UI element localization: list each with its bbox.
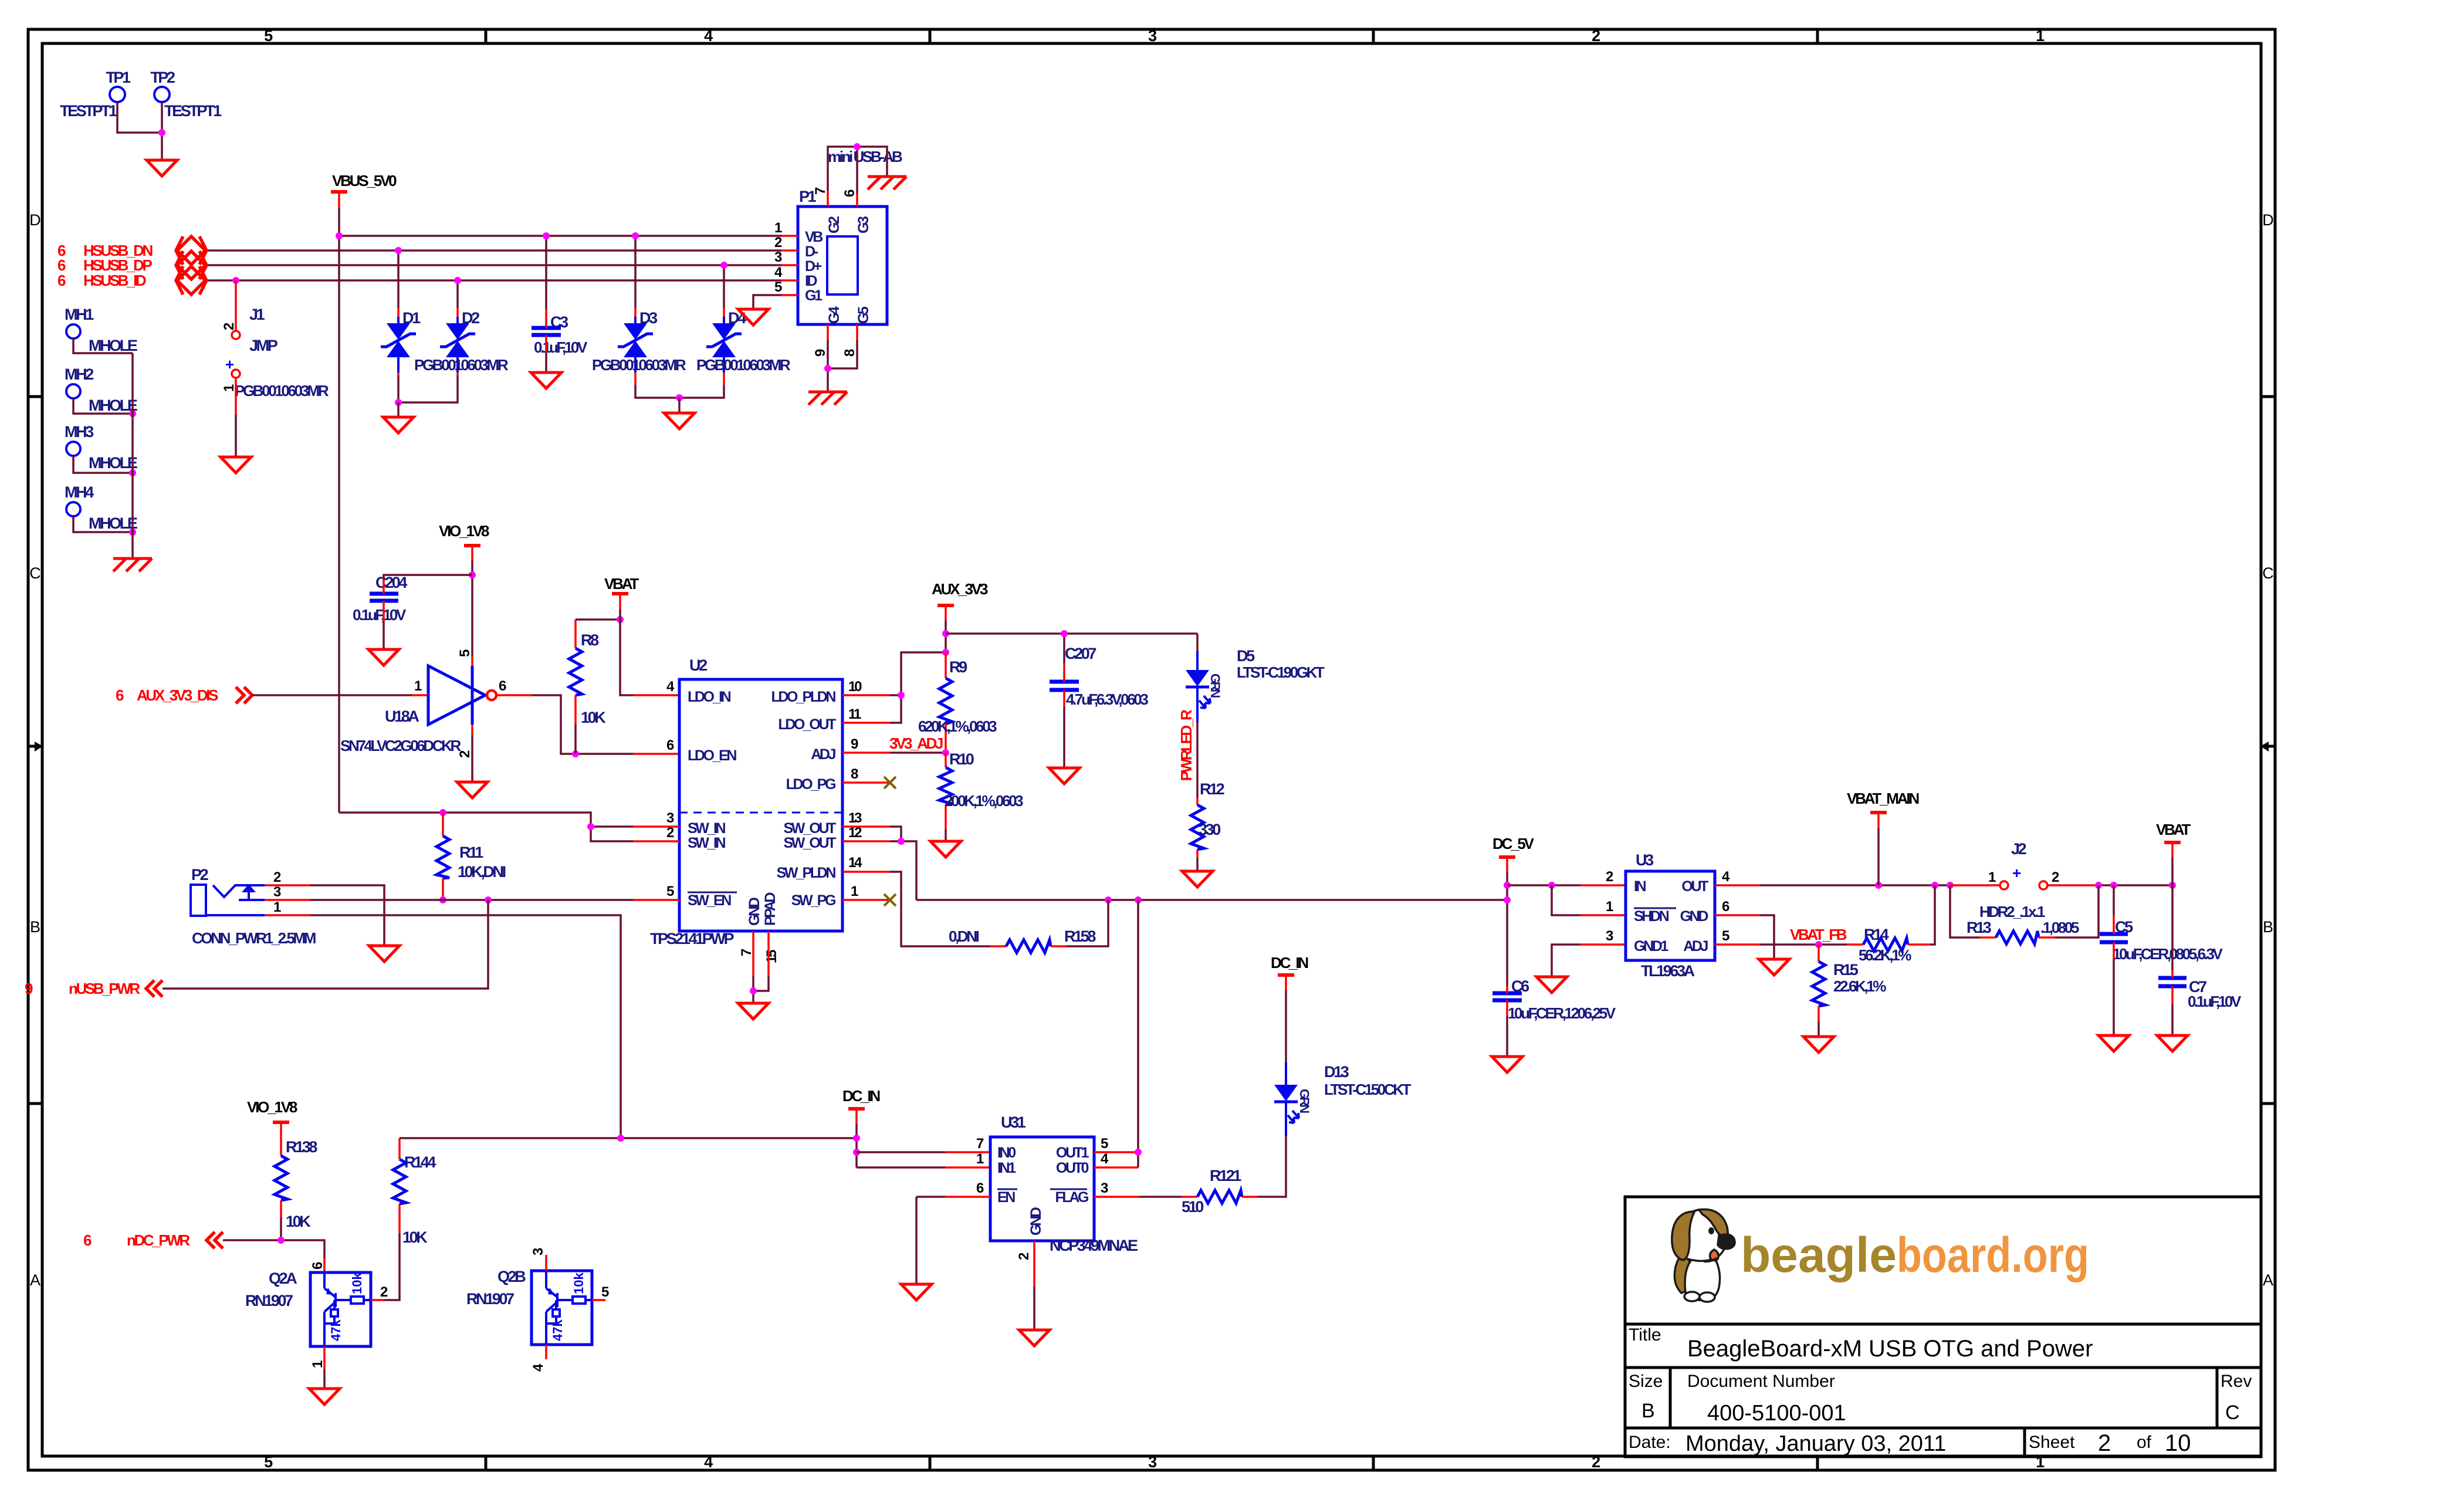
IC U3 TL1963A <box>1626 851 1715 980</box>
svg-text:MHOLE: MHOLE <box>89 454 137 472</box>
wire AUX_3V3 horizontal <box>946 632 1197 635</box>
wire LDO_PLDN LDO_OUT join <box>890 652 946 723</box>
beagleboard.org logo text <box>1741 1227 2089 1282</box>
ground R15 <box>1803 1037 1834 1052</box>
svg-text:FLAG: FLAG <box>1055 1189 1088 1206</box>
power DC_5V <box>1492 835 1535 872</box>
svg-text:of: of <box>2137 1433 2152 1452</box>
pin 3 stub Q2B <box>545 1255 547 1271</box>
header J2 <box>1979 840 2059 920</box>
resistor R9 <box>918 652 997 753</box>
svg-text:HSUSB_ID: HSUSB_ID <box>83 272 146 289</box>
wire R8 top to VBAT <box>576 618 620 621</box>
wire VBAT_MAIN down <box>1877 828 1880 885</box>
pin 8 stub P1 bottom <box>856 324 858 340</box>
wire HSUSB_DN <box>207 249 781 252</box>
svg-text:10k: 10k <box>571 1272 586 1294</box>
chassis ground P1 bottom <box>808 392 847 405</box>
connector P1 mini USB-AB <box>798 188 887 324</box>
svg-text:OUT0: OUT0 <box>1056 1160 1089 1176</box>
transistor Q2B <box>466 1268 592 1345</box>
no-connect X pin1 <box>884 894 896 906</box>
node VBUS junction <box>336 232 343 239</box>
wire P1 pins 7 6 to chassis <box>828 147 887 191</box>
svg-text:10uF,CER,1206,25V: 10uF,CER,1206,25V <box>1508 1004 1616 1022</box>
power VIO_1V8 <box>439 522 489 561</box>
ground U2 <box>738 1003 769 1019</box>
svg-text:R15: R15 <box>1833 961 1859 979</box>
svg-text:U31: U31 <box>1001 1113 1026 1131</box>
svg-text:G2: G2 <box>826 216 842 233</box>
test point TP2 <box>150 69 222 120</box>
svg-text:PWRLED_R: PWRLED_R <box>1177 709 1195 781</box>
pin 1 stub Q2A <box>323 1346 326 1369</box>
wire AUX_3V3 rail <box>945 621 947 652</box>
svg-text:400-5100-001: 400-5100-001 <box>1707 1401 1846 1426</box>
mounting hole MH4 <box>65 483 137 532</box>
resistor R158 <box>949 928 1096 953</box>
wire J2 stubs <box>1950 884 2000 886</box>
ground C6 <box>1492 1057 1522 1072</box>
wire U3 OUT rail <box>1715 884 1760 886</box>
pin 6 stub P1 top <box>856 194 858 207</box>
wire R15 to ground <box>1817 1021 1820 1037</box>
svg-text:3V3_ADJ: 3V3_ADJ <box>889 735 943 752</box>
wire nDC_PWR <box>223 1240 324 1258</box>
svg-text:MH4: MH4 <box>65 483 94 501</box>
svg-text:VBAT: VBAT <box>2156 821 2191 838</box>
svg-text:SW_OUT: SW_OUT <box>783 820 836 837</box>
capacitor C5 <box>2100 918 2223 963</box>
resistor R15 <box>1812 945 1886 1021</box>
resistor R138 <box>275 1138 317 1230</box>
TVS diode D3 <box>618 309 658 357</box>
svg-text:15: 15 <box>764 950 780 963</box>
svg-text:IN1: IN1 <box>997 1160 1016 1176</box>
svg-text:R11: R11 <box>459 844 483 861</box>
wire R12 to ground <box>1196 858 1199 871</box>
chassis ground MH <box>113 559 152 571</box>
svg-text:C207: C207 <box>1065 645 1096 662</box>
svg-text:A: A <box>30 1271 40 1289</box>
svg-text:10: 10 <box>2165 1430 2191 1456</box>
ground P2 <box>369 946 400 962</box>
svg-text:GRN: GRN <box>1208 673 1223 698</box>
svg-text:TESTPT1: TESTPT1 <box>60 102 117 120</box>
svg-text:+: + <box>2012 864 2021 882</box>
wire D5 to R12 <box>1196 722 1199 798</box>
svg-text:RN1907: RN1907 <box>245 1292 293 1309</box>
pin 4 stub Q2B <box>545 1345 547 1359</box>
ground Q2A <box>309 1389 340 1404</box>
svg-text:D5: D5 <box>1237 647 1255 665</box>
wire VBAT to U2 pin4 <box>620 609 633 695</box>
wire Q2A pin1 to ground <box>323 1369 326 1389</box>
svg-text:0.1uF,10V: 0.1uF,10V <box>2188 993 2242 1010</box>
wire J1 to ground <box>235 415 237 457</box>
wire C6 leads <box>1506 986 1508 993</box>
svg-text:0.1uF,10V: 0.1uF,10V <box>534 339 588 356</box>
wire to U31 IN1 <box>857 1166 945 1169</box>
svg-text:G1: G1 <box>805 287 823 304</box>
svg-text:MHOLE: MHOLE <box>89 337 137 354</box>
svg-text:IN0: IN0 <box>997 1145 1016 1161</box>
svg-text:BeagleBoard-xM USB OTG and Pow: BeagleBoard-xM USB OTG and Power <box>1687 1336 2093 1362</box>
svg-text:10k: 10k <box>350 1272 364 1294</box>
wire R144 top to DC rail <box>400 1137 857 1139</box>
svg-text:13: 13 <box>848 810 862 826</box>
svg-text:10K: 10K <box>402 1228 428 1246</box>
wire D2 top <box>456 280 459 308</box>
svg-text:VB: VB <box>805 229 823 245</box>
svg-text:GND: GND <box>746 898 763 926</box>
svg-text:AUX_3V3: AUX_3V3 <box>932 580 988 598</box>
power DC_IN left <box>842 1087 880 1124</box>
svg-text:G5: G5 <box>855 306 872 324</box>
wire R138 to nDC_PWR <box>280 1217 282 1240</box>
svg-text:Title: Title <box>1629 1325 1661 1345</box>
power DC_IN right <box>1271 954 1308 990</box>
pin stubs U2 right <box>842 694 890 696</box>
svg-text:330: 330 <box>1199 821 1220 838</box>
wire D3 top <box>634 236 637 308</box>
svg-text:R121: R121 <box>1210 1167 1241 1184</box>
wire SW_PLDN down <box>890 872 990 946</box>
ground U18A <box>457 782 488 798</box>
svg-text:J2: J2 <box>2011 840 2026 858</box>
ground U3 GND1 <box>1536 977 1567 993</box>
resistor R121 <box>1182 1167 1258 1216</box>
svg-text:AUX_3V3_DIS: AUX_3V3_DIS <box>137 686 218 704</box>
wire MH1 <box>73 339 133 353</box>
offpage connector nUSB_PWR <box>25 980 163 997</box>
svg-text:NCP349MNAE: NCP349MNAE <box>1050 1237 1138 1254</box>
mounting hole MH3 <box>65 423 137 472</box>
svg-text:CONN_PWR1_2.5MM: CONN_PWR1_2.5MM <box>192 929 316 947</box>
offpage connector nDC_PWR <box>83 1231 223 1249</box>
svg-text:LDO_PLDN: LDO_PLDN <box>771 689 835 705</box>
svg-text:.1,0805: .1,0805 <box>2040 919 2079 936</box>
wire SW_OUT join <box>890 827 901 841</box>
wire J2 to VBAT rail <box>2099 884 2172 886</box>
ground D3 D4 <box>664 413 695 429</box>
svg-text:47k: 47k <box>550 1319 565 1341</box>
wire U18A pin2 to ground <box>471 735 473 782</box>
wire R8 bottom <box>574 725 577 754</box>
junction dot <box>158 129 165 136</box>
wire MH3 <box>73 456 133 473</box>
wire HSUSB_DP <box>207 264 781 266</box>
node R11 bottom <box>439 896 446 903</box>
resistor R10 <box>939 750 1023 829</box>
wire U2 GND PPAD join <box>752 976 754 1003</box>
svg-text:22.6K,1%: 22.6K,1% <box>1833 977 1886 995</box>
pin 7 stub P1 top <box>827 191 829 207</box>
svg-text:VBAT: VBAT <box>604 575 639 593</box>
svg-text:LDO_OUT: LDO_OUT <box>778 716 836 733</box>
svg-text:C: C <box>29 564 41 582</box>
wire R158 to rail <box>1067 900 1108 946</box>
resistor R8 <box>569 620 606 726</box>
wire C3 top <box>545 236 547 309</box>
svg-text:VBAT_MAIN: VBAT_MAIN <box>1847 790 1919 807</box>
svg-text:nUSB_PWR: nUSB_PWR <box>69 980 140 997</box>
ground R12 <box>1182 871 1213 887</box>
wire VBUS vertical <box>338 208 340 813</box>
wire R14 to OUT rail <box>1930 885 1935 945</box>
svg-text:HDR2_.1x.1: HDR2_.1x.1 <box>1979 903 2045 920</box>
wire DC_IN junctions <box>855 1124 858 1167</box>
svg-text:MH2: MH2 <box>65 365 93 383</box>
ground C7 <box>2157 1035 2188 1051</box>
svg-text:B: B <box>1641 1400 1655 1422</box>
wire VBUS horizontal <box>339 235 781 237</box>
pin stubs P1 left <box>781 235 798 237</box>
wire VBAT down <box>2171 858 2174 885</box>
wire C3 bottom <box>545 335 547 353</box>
title block <box>1625 1197 2261 1457</box>
svg-text:PPAD: PPAD <box>762 893 779 926</box>
resistor R12 <box>1191 780 1224 858</box>
wire C204 top <box>384 575 472 580</box>
svg-text:Sheet: Sheet <box>2029 1433 2075 1452</box>
wire ADJ to R9 R10 <box>890 752 946 754</box>
power VBAT <box>604 575 639 609</box>
jumper J1 <box>221 277 329 415</box>
wire D4 bottom to D3 <box>723 357 725 373</box>
svg-text:B: B <box>2263 918 2273 936</box>
svg-text:PGB0010603MR: PGB0010603MR <box>235 382 329 400</box>
ground U31 EN <box>901 1284 932 1300</box>
svg-text:0,DNI: 0,DNI <box>949 928 979 945</box>
svg-text:D13: D13 <box>1324 1063 1349 1081</box>
wire D4 top <box>723 265 725 308</box>
capacitor C3 <box>532 313 588 356</box>
svg-text:Date:: Date: <box>1629 1433 1671 1452</box>
svg-text:LDO_EN: LDO_EN <box>688 747 736 764</box>
wire P2 pin3 rail SW_EN <box>310 899 633 901</box>
svg-text:mini USB-AB: mini USB-AB <box>828 148 902 165</box>
resistor R13 <box>1950 885 2079 944</box>
svg-text:Size: Size <box>1629 1372 1663 1391</box>
svg-text:56.2K,1%: 56.2K,1% <box>1859 946 1911 964</box>
wire P1 pins 9 8 join <box>827 340 829 392</box>
svg-text:DC_IN: DC_IN <box>1271 954 1308 972</box>
no-connect X pin8 <box>884 777 896 788</box>
wire DC_5V to U3 IN <box>1507 884 1580 886</box>
svg-text:C: C <box>2225 1402 2240 1424</box>
ground C5 <box>2099 1035 2129 1051</box>
pin 2 stub U18A <box>471 725 473 735</box>
svg-text:D: D <box>2262 211 2274 229</box>
wire MH chain vertical <box>131 353 134 559</box>
ground <box>147 160 177 176</box>
wire to U3 SHDN <box>1552 885 1580 915</box>
svg-text:DC_IN: DC_IN <box>842 1087 880 1105</box>
svg-text:SW_IN: SW_IN <box>688 820 726 837</box>
svg-text:LDO_IN: LDO_IN <box>688 689 731 705</box>
LED D5 <box>1186 647 1325 722</box>
svg-text:LTST-C190GKT: LTST-C190GKT <box>1237 664 1325 681</box>
svg-text:SW_OUT: SW_OUT <box>783 835 836 851</box>
svg-text:PGB0010603MR: PGB0010603MR <box>592 356 686 374</box>
svg-text:TPS2141PWP: TPS2141PWP <box>650 930 734 947</box>
node MH2 junction <box>129 410 136 417</box>
wire U31 EN to ground <box>945 1196 990 1198</box>
wire U31 GND to ground <box>1033 1287 1035 1330</box>
wire C204 bottom <box>383 601 385 621</box>
IC U31 NCP349MNAE <box>990 1113 1138 1254</box>
offpage connector HSUSB_ID <box>57 266 207 295</box>
svg-text:SW_PLDN: SW_PLDN <box>777 865 836 881</box>
svg-text:47k: 47k <box>329 1319 343 1341</box>
wire C207 top <box>1063 634 1065 663</box>
svg-text:R8: R8 <box>581 631 599 649</box>
wire C7 leads <box>2171 970 2174 978</box>
wire G1 to ground <box>753 295 781 309</box>
power AUX_3V3 <box>932 580 988 621</box>
svg-text:B: B <box>30 918 40 936</box>
TVS diode D1 <box>381 309 421 357</box>
transistor Q2A <box>245 1270 371 1346</box>
svg-text:R12: R12 <box>1200 780 1224 798</box>
wire R13 to J2 pin2 <box>2055 885 2099 937</box>
svg-text:TP2: TP2 <box>150 69 175 86</box>
LED D13 <box>1274 1062 1412 1136</box>
svg-text:MH3: MH3 <box>65 423 94 441</box>
beagleboard logo dog <box>1672 1209 1735 1302</box>
svg-text:GRN: GRN <box>1297 1089 1312 1113</box>
ground C207 <box>1049 768 1079 784</box>
ground U3 GND <box>1759 959 1789 975</box>
svg-text:JMP: JMP <box>249 337 278 354</box>
svg-text:SN74LVC2G06DCKR: SN74LVC2G06DCKR <box>340 737 461 754</box>
wire TP2 down <box>161 103 163 160</box>
svg-text:MH1: MH1 <box>65 306 94 323</box>
connector P2 <box>191 866 316 947</box>
wire MH4 <box>73 516 133 532</box>
offpage connector HSUSB_DN <box>57 236 207 265</box>
svg-text:U2: U2 <box>689 656 707 674</box>
svg-text:U3: U3 <box>1636 851 1654 869</box>
svg-text:Monday, January 03, 2011: Monday, January 03, 2011 <box>1685 1431 1946 1456</box>
svg-text:nDC_PWR: nDC_PWR <box>127 1231 190 1249</box>
svg-text:GND: GND <box>1028 1207 1044 1236</box>
svg-text:Rev: Rev <box>2221 1372 2252 1391</box>
offpage connector AUX_3V3_DIS <box>116 686 252 704</box>
svg-text:P2: P2 <box>191 866 208 884</box>
wire to U31 IN0 <box>857 1151 945 1153</box>
svg-text:0.1uF,10V: 0.1uF,10V <box>353 606 407 624</box>
wire TP1 to TP2 junction <box>117 103 162 133</box>
pin 5 stub U18A <box>471 656 473 666</box>
resistor R14 <box>1847 926 1930 964</box>
offpage connector HSUSB_DP <box>57 251 207 279</box>
svg-text:D: D <box>29 211 41 229</box>
power VBAT_MAIN <box>1847 790 1919 828</box>
svg-text:A: A <box>2263 1271 2273 1289</box>
svg-text:C: C <box>2262 564 2274 582</box>
wire C5 leads <box>2113 885 2115 915</box>
resistor R144 <box>393 1138 436 1246</box>
wire D1 bottom <box>397 357 400 373</box>
mounting hole MH2 <box>65 365 137 414</box>
pin 7 15 stubs U2 bottom <box>752 931 754 976</box>
wire AUX_3V3_DIS to U18A <box>252 694 412 696</box>
wire nUSB_PWR <box>163 900 488 989</box>
svg-text:J1: J1 <box>249 306 265 323</box>
wire to ground D3 D4 <box>678 398 681 413</box>
svg-text:D+: D+ <box>805 258 822 275</box>
svg-text:LTST-C150CKT: LTST-C150CKT <box>1324 1081 1412 1098</box>
svg-text:10K,DNI: 10K,DNI <box>458 863 506 881</box>
ground D1 D2 <box>383 417 414 433</box>
wire DC_5V vertical <box>1506 872 1508 986</box>
svg-text:DC_5V: DC_5V <box>1492 835 1535 852</box>
capacitor C207 <box>1050 645 1148 708</box>
ground C204 <box>368 649 399 665</box>
wire D5 top corner <box>1196 634 1199 651</box>
wire MH2 <box>73 398 133 414</box>
svg-text:D-: D- <box>805 243 818 260</box>
power VIO_1V8 lower <box>247 1098 297 1138</box>
svg-text:VIO_1V8: VIO_1V8 <box>247 1098 297 1116</box>
svg-text:LDO_PG: LDO_PG <box>786 776 835 793</box>
test point TP1 <box>60 69 131 120</box>
wire U18A output <box>496 694 532 696</box>
capacitor C7 <box>2158 978 2242 1010</box>
chassis ground P1 top <box>868 177 906 189</box>
svg-text:TP1: TP1 <box>106 69 131 86</box>
svg-text:4.7uF,6.3V,0603: 4.7uF,6.3V,0603 <box>1066 691 1148 708</box>
svg-text:ID: ID <box>805 273 817 289</box>
svg-text:R138: R138 <box>286 1138 317 1156</box>
svg-text:GND1: GND1 <box>1634 938 1668 955</box>
svg-text:620K,1%,0603: 620K,1%,0603 <box>918 717 997 735</box>
svg-text:Q2A: Q2A <box>269 1270 297 1287</box>
svg-text:EN: EN <box>997 1189 1015 1206</box>
pin 2 stub U31 <box>1033 1241 1035 1287</box>
svg-text:G3: G3 <box>855 216 872 233</box>
svg-text:RN1907: RN1907 <box>466 1290 514 1308</box>
svg-text:G4: G4 <box>826 306 842 324</box>
svg-text:board.org: board.org <box>1897 1227 2089 1282</box>
pin 2 stub Q2A <box>371 1299 384 1301</box>
svg-text:U18A: U18A <box>385 708 419 725</box>
wire Q2A pin2 to R144 <box>384 1233 400 1300</box>
capacitor C6 <box>1492 977 1616 1022</box>
svg-text:VBUS_5V0: VBUS_5V0 <box>332 172 397 189</box>
svg-text:VBAT_FB: VBAT_FB <box>1790 926 1847 943</box>
wire R10 to ground <box>945 829 947 841</box>
svg-text:OUT: OUT <box>1681 878 1708 895</box>
wire P2 pin2 to ground <box>310 885 384 946</box>
svg-text:R158: R158 <box>1064 928 1096 945</box>
svg-text:SW_EN: SW_EN <box>688 892 731 909</box>
svg-text:R9: R9 <box>949 658 967 676</box>
svg-text:PGB0010603MR: PGB0010603MR <box>696 356 791 374</box>
wire D3 bottom <box>634 357 637 373</box>
mounting hole MH1 <box>65 306 137 354</box>
wire U3 GND to ground <box>1715 914 1760 916</box>
svg-text:TL1963A: TL1963A <box>1641 962 1695 980</box>
svg-text:SHDN: SHDN <box>1634 908 1669 925</box>
ground J1 <box>221 457 251 473</box>
svg-text:SW_PG: SW_PG <box>791 892 835 909</box>
pin 6 stub Q2A <box>323 1258 326 1272</box>
svg-text:10K: 10K <box>286 1213 311 1230</box>
wire U31 outputs to rail <box>1094 1151 1138 1153</box>
